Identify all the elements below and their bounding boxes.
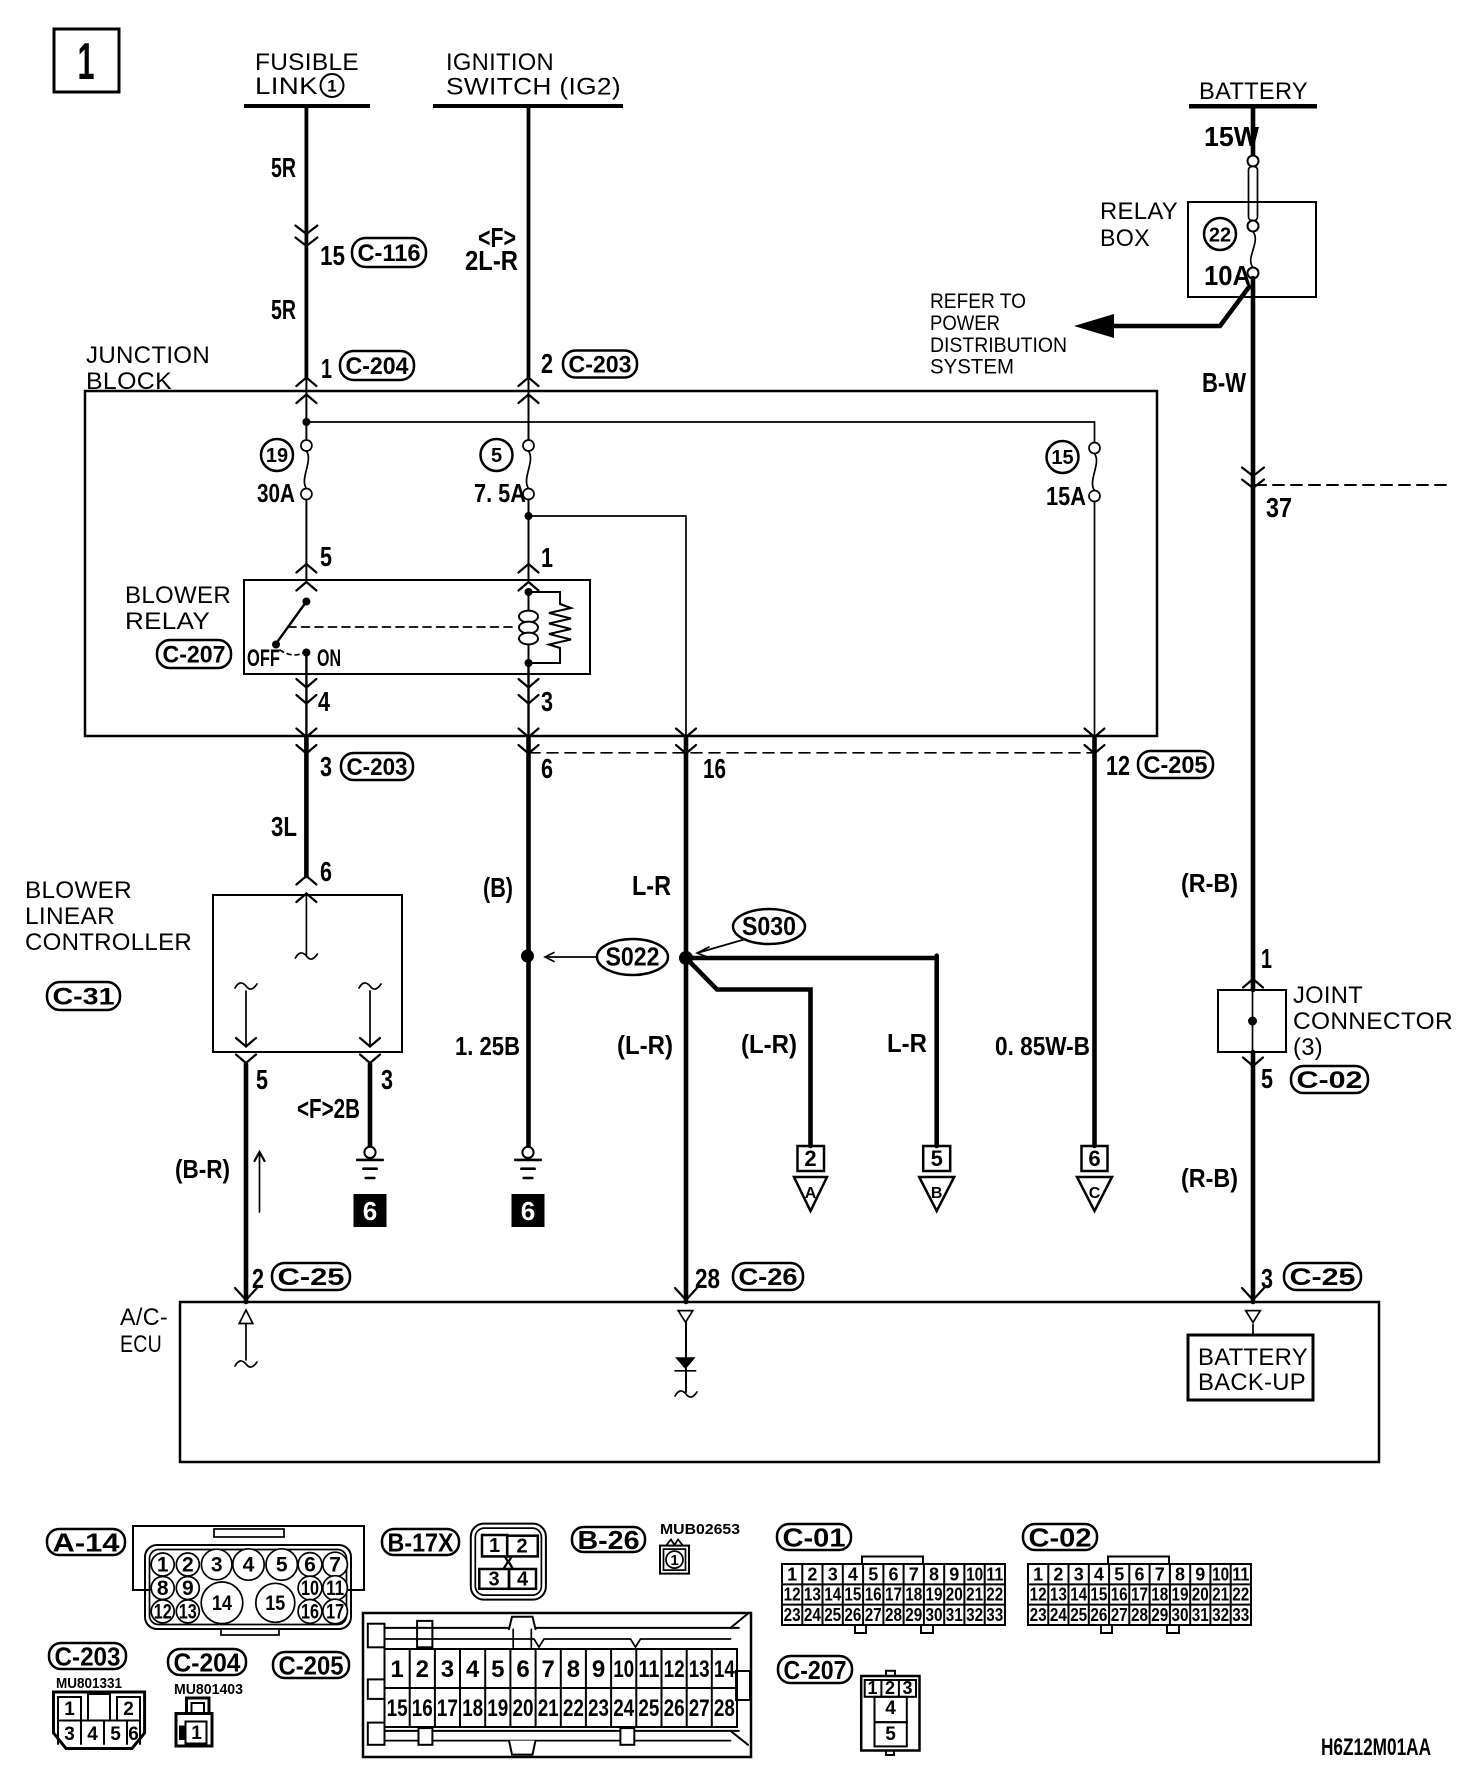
wire2 thin inside junction block bbox=[528, 378, 530, 441]
svg-text:2: 2 bbox=[541, 348, 553, 379]
svg-text:33: 33 bbox=[1232, 1605, 1249, 1625]
connector chevrons 15 C-116 bbox=[295, 226, 317, 235]
svg-text:BLOWER: BLOWER bbox=[125, 582, 231, 609]
svg-text:9: 9 bbox=[592, 1656, 605, 1683]
wire L-R vertical to ECU bbox=[684, 738, 689, 1302]
svg-text:20: 20 bbox=[946, 1585, 963, 1605]
svg-text:14: 14 bbox=[824, 1585, 841, 1605]
blower linear controller rectangle bbox=[213, 895, 402, 1052]
svg-text:B-W: B-W bbox=[1202, 367, 1246, 398]
wire junction block rail bbox=[306, 421, 1094, 423]
A/C-ECU rectangle bbox=[180, 1302, 1379, 1462]
chevrons wire4 exiting junction block bbox=[1085, 729, 1105, 738]
svg-text:MU801403: MU801403 bbox=[174, 1681, 243, 1698]
wire relay switch to pin4 bbox=[305, 653, 307, 737]
svg-text:7: 7 bbox=[1155, 1564, 1165, 1584]
svg-text:1: 1 bbox=[191, 1723, 202, 1744]
svg-text:JUNCTION: JUNCTION bbox=[86, 342, 210, 369]
svg-text:12: 12 bbox=[1030, 1585, 1047, 1605]
svg-text:1: 1 bbox=[390, 1656, 403, 1683]
chevron B-R entering ECU bbox=[235, 1288, 257, 1300]
svg-text:31: 31 bbox=[1192, 1605, 1209, 1625]
wire branch to pin16 vertical bbox=[685, 516, 687, 736]
svg-text:14: 14 bbox=[212, 1592, 232, 1615]
connector C-203 body bbox=[54, 1692, 145, 1749]
connector pill C-31 bbox=[47, 982, 120, 1010]
svg-text:15: 15 bbox=[265, 1592, 285, 1615]
fuse 19 circle bbox=[261, 439, 293, 471]
svg-text:22: 22 bbox=[986, 1585, 1003, 1605]
terminal box 2 branch A bbox=[798, 1146, 825, 1171]
svg-text:C-205: C-205 bbox=[1144, 752, 1208, 779]
svg-text:(L-R): (L-R) bbox=[617, 1030, 673, 1060]
svg-text:16: 16 bbox=[703, 753, 726, 784]
wire 3L vertical bbox=[304, 738, 309, 876]
svg-text:S030: S030 bbox=[742, 911, 796, 941]
svg-text:6: 6 bbox=[304, 1554, 316, 1577]
ground code box 6 at x=370.0 bbox=[354, 1194, 387, 1227]
fuse 10A squiggle bbox=[1251, 232, 1256, 268]
chevrons wire2 entering junction block bbox=[519, 378, 539, 387]
svg-text:25: 25 bbox=[638, 1695, 659, 1722]
junction block rectangle bbox=[85, 391, 1157, 736]
svg-text:6: 6 bbox=[128, 1724, 139, 1745]
svg-text:C-02: C-02 bbox=[1297, 1067, 1363, 1094]
svg-text:6: 6 bbox=[521, 1196, 535, 1226]
svg-text:24: 24 bbox=[804, 1605, 821, 1625]
svg-text:0. 85W-B: 0. 85W-B bbox=[995, 1031, 1090, 1061]
svg-text:C-31: C-31 bbox=[53, 984, 115, 1011]
svg-text:C-205: C-205 bbox=[279, 1650, 344, 1680]
svg-text:2: 2 bbox=[416, 1656, 429, 1683]
svg-text:4: 4 bbox=[318, 686, 330, 717]
svg-text:17: 17 bbox=[885, 1585, 902, 1605]
junction dot ignition branch pin16 bbox=[525, 512, 533, 520]
svg-text:5: 5 bbox=[491, 445, 502, 467]
svg-text:6: 6 bbox=[541, 753, 553, 784]
svg-text:26: 26 bbox=[844, 1605, 861, 1625]
svg-text:DISTRIBUTION: DISTRIBUTION bbox=[930, 334, 1067, 357]
chevrons controller right exit bbox=[360, 1038, 380, 1047]
svg-text:C-02: C-02 bbox=[1029, 1522, 1092, 1552]
svg-text:17: 17 bbox=[1131, 1585, 1148, 1605]
wire1 thin inside junction block bbox=[305, 378, 307, 441]
connector A-14 cavities bbox=[151, 1553, 174, 1576]
svg-text:C-25: C-25 bbox=[1290, 1264, 1356, 1291]
svg-text:22: 22 bbox=[1232, 1585, 1249, 1605]
svg-text:7: 7 bbox=[329, 1554, 341, 1577]
svg-text:5: 5 bbox=[868, 1564, 878, 1584]
connector B-17X body bbox=[471, 1524, 546, 1600]
svg-text:18: 18 bbox=[462, 1695, 483, 1722]
svg-text:C-203: C-203 bbox=[347, 754, 408, 781]
chevrons wire1 exiting junction block bbox=[296, 729, 316, 738]
chevrons wire3 exiting junction block bbox=[676, 729, 696, 738]
page number box 1 bbox=[54, 29, 119, 92]
svg-text:BATTERY: BATTERY bbox=[1198, 1344, 1308, 1371]
svg-text:6: 6 bbox=[1134, 1564, 1144, 1584]
svg-text:3: 3 bbox=[488, 1569, 499, 1591]
svg-text:18: 18 bbox=[905, 1585, 922, 1605]
svg-text:RELAY: RELAY bbox=[125, 608, 210, 635]
wire B-R vertical to ECU bbox=[244, 1064, 249, 1302]
svg-text:2: 2 bbox=[807, 1564, 817, 1584]
svg-text:10: 10 bbox=[1212, 1564, 1229, 1584]
svg-text:2: 2 bbox=[804, 1146, 816, 1171]
svg-text:13: 13 bbox=[689, 1656, 710, 1683]
svg-text:H6Z12M01AA: H6Z12M01AA bbox=[1321, 1734, 1431, 1761]
svg-text:8: 8 bbox=[1175, 1564, 1185, 1584]
svg-text:(B-R): (B-R) bbox=[175, 1154, 230, 1184]
svg-text:3: 3 bbox=[902, 1678, 912, 1698]
svg-text:X: X bbox=[502, 1553, 514, 1573]
svg-text:5R: 5R bbox=[271, 294, 296, 325]
svg-text:C-204: C-204 bbox=[174, 1647, 241, 1677]
joint connector box bbox=[1218, 990, 1286, 1052]
svg-text:30A: 30A bbox=[257, 478, 295, 508]
wire fuse15 to junction block bottom bbox=[1094, 502, 1096, 737]
chevrons entering blower linear controller bbox=[296, 876, 316, 885]
svg-text:SWITCH (IG2): SWITCH (IG2) bbox=[446, 74, 621, 101]
svg-text:26: 26 bbox=[1090, 1605, 1107, 1625]
svg-text:1: 1 bbox=[157, 1554, 169, 1577]
svg-text:MU801331: MU801331 bbox=[56, 1675, 122, 1692]
svg-text:(L-R): (L-R) bbox=[741, 1029, 797, 1059]
connector A-14 outer housing bbox=[133, 1526, 364, 1590]
wire ignition switch vertical 2L-R bbox=[527, 108, 531, 377]
ECU input symbol right open triangle down bbox=[1246, 1311, 1261, 1323]
battery back-up box bbox=[1188, 1335, 1313, 1400]
svg-text:5: 5 bbox=[885, 1724, 896, 1745]
svg-text:19: 19 bbox=[487, 1695, 508, 1722]
wire branch to pin16 horizontal bbox=[529, 515, 687, 517]
relay actuation dashed line bbox=[288, 626, 516, 628]
arrow to power distribution system bbox=[1112, 287, 1249, 326]
svg-text:21: 21 bbox=[1212, 1585, 1229, 1605]
battery terminal bar bbox=[1189, 104, 1317, 109]
svg-text:6: 6 bbox=[516, 1656, 529, 1683]
svg-text:1: 1 bbox=[78, 33, 95, 91]
connector pill C-205 bottom bbox=[273, 1652, 349, 1678]
svg-text:BACK-UP: BACK-UP bbox=[1198, 1369, 1306, 1396]
svg-text:OFF: OFF bbox=[247, 645, 280, 672]
connector pill C-203 top bbox=[563, 351, 637, 378]
wire stub inside controller right bbox=[359, 983, 381, 989]
svg-text:1: 1 bbox=[321, 353, 332, 384]
connector C-205 pin grid bbox=[385, 1649, 738, 1727]
svg-text:BLOWER: BLOWER bbox=[25, 877, 132, 904]
svg-text:15: 15 bbox=[387, 1695, 408, 1722]
svg-text:6: 6 bbox=[320, 856, 332, 887]
svg-text:6: 6 bbox=[363, 1196, 377, 1226]
svg-text:C: C bbox=[1089, 1185, 1101, 1202]
fuse 19 element 30A bbox=[301, 440, 312, 451]
svg-text:L-R: L-R bbox=[632, 870, 671, 901]
svg-text:29: 29 bbox=[1151, 1605, 1168, 1625]
svg-text:23: 23 bbox=[784, 1605, 801, 1625]
svg-text:5: 5 bbox=[320, 541, 332, 572]
svg-text:POWER: POWER bbox=[930, 312, 1000, 335]
dashed branch line at 37 bbox=[1255, 484, 1450, 486]
svg-text:12: 12 bbox=[1106, 750, 1130, 781]
connector C-01 pin grid bbox=[862, 1557, 923, 1565]
connector pill C-116 bbox=[352, 238, 426, 267]
svg-text:20: 20 bbox=[513, 1695, 534, 1722]
relay switch ON dot bbox=[302, 649, 310, 657]
svg-text:26: 26 bbox=[664, 1695, 685, 1722]
svg-text:24: 24 bbox=[613, 1695, 635, 1722]
arrow S030 to splice bbox=[699, 940, 744, 953]
wire F2B to ground bbox=[368, 1064, 373, 1147]
svg-text:9: 9 bbox=[182, 1577, 194, 1600]
svg-text:ECU: ECU bbox=[120, 1331, 162, 1358]
triangle connector A bbox=[794, 1177, 827, 1211]
svg-text:10A: 10A bbox=[1204, 260, 1251, 291]
svg-text:1: 1 bbox=[1033, 1564, 1043, 1584]
svg-text:L-R: L-R bbox=[887, 1028, 927, 1058]
svg-text:15: 15 bbox=[1051, 447, 1073, 469]
svg-text:BATTERY: BATTERY bbox=[1199, 78, 1308, 105]
svg-text:13: 13 bbox=[804, 1585, 821, 1605]
svg-text:23: 23 bbox=[1030, 1605, 1047, 1625]
svg-text:4: 4 bbox=[517, 1569, 529, 1591]
chevron entering joint connector bbox=[1243, 979, 1263, 988]
circled 1 fusible link number bbox=[321, 74, 344, 97]
svg-text:1: 1 bbox=[64, 1699, 75, 1720]
svg-text:<F>2B: <F>2B bbox=[297, 1093, 360, 1124]
up arrow beside B-R wire bbox=[259, 1152, 261, 1212]
svg-text:4: 4 bbox=[848, 1564, 858, 1584]
fusible link terminal bar bbox=[244, 104, 370, 108]
ECU input symbol middle diode bbox=[678, 1311, 693, 1323]
svg-text:16: 16 bbox=[865, 1585, 882, 1605]
svg-text:(3): (3) bbox=[1293, 1034, 1323, 1061]
svg-text:14: 14 bbox=[714, 1656, 736, 1683]
fuse 15 element 15A bbox=[1094, 422, 1096, 443]
svg-text:1: 1 bbox=[541, 542, 553, 573]
svg-text:12: 12 bbox=[664, 1656, 685, 1683]
svg-text:3: 3 bbox=[828, 1564, 838, 1584]
connector B-26 body bbox=[667, 1540, 683, 1546]
connector C-205 28pin housing bbox=[363, 1613, 751, 1757]
splice dot S030 bbox=[679, 951, 693, 965]
arrow S022 to splice bbox=[546, 956, 597, 958]
svg-text:(R-B): (R-B) bbox=[1181, 1163, 1238, 1193]
svg-text:17: 17 bbox=[437, 1695, 458, 1722]
ignition switch terminal bar bbox=[433, 104, 623, 108]
svg-text:A: A bbox=[805, 1185, 817, 1202]
svg-text:LINEAR: LINEAR bbox=[25, 903, 115, 930]
wire fusible link vertical 5R bbox=[304, 108, 308, 377]
svg-text:LINK: LINK bbox=[255, 73, 318, 100]
svg-text:21: 21 bbox=[966, 1585, 983, 1605]
svg-text:1: 1 bbox=[1261, 943, 1272, 974]
triangle connector B bbox=[919, 1177, 954, 1211]
svg-text:11: 11 bbox=[326, 1577, 344, 1600]
connector pill C-207 bottom bbox=[778, 1656, 852, 1683]
svg-text:13: 13 bbox=[179, 1600, 197, 1623]
svg-text:3: 3 bbox=[541, 686, 553, 717]
relay switch travel dashed arc bbox=[280, 650, 303, 655]
connector pill B-26 bbox=[572, 1527, 645, 1552]
svg-text:6: 6 bbox=[1088, 1146, 1100, 1171]
svg-text:FUSIBLE: FUSIBLE bbox=[255, 49, 359, 76]
wire 0.85W-B vertical bbox=[1092, 738, 1097, 1146]
svg-text:27: 27 bbox=[865, 1605, 882, 1625]
svg-text:ON: ON bbox=[317, 645, 341, 672]
svg-text:RELAY: RELAY bbox=[1100, 198, 1178, 225]
svg-text:8: 8 bbox=[567, 1656, 580, 1683]
svg-text:37: 37 bbox=[1266, 492, 1292, 523]
wire stub inside controller top bbox=[305, 894, 307, 955]
svg-text:5: 5 bbox=[931, 1146, 943, 1171]
svg-text:B-26: B-26 bbox=[578, 1525, 640, 1555]
svg-text:30: 30 bbox=[926, 1605, 943, 1625]
svg-text:5R: 5R bbox=[271, 152, 296, 183]
svg-text:6: 6 bbox=[888, 1564, 898, 1584]
wire fuse5 to blower relay pin1 bbox=[528, 500, 530, 581]
svg-text:19: 19 bbox=[926, 1585, 943, 1605]
svg-text:11: 11 bbox=[638, 1656, 659, 1683]
ground symbol at x=370.0 bbox=[364, 1147, 375, 1158]
svg-text:5: 5 bbox=[256, 1064, 268, 1095]
svg-text:3: 3 bbox=[1074, 1564, 1084, 1584]
connector pill C-204 bbox=[168, 1649, 246, 1675]
wire branch A diagonal bbox=[686, 958, 811, 1146]
svg-text:B-17X: B-17X bbox=[388, 1527, 455, 1557]
wire (B) 1.25B vertical bbox=[526, 738, 531, 1147]
svg-text:31: 31 bbox=[946, 1605, 963, 1625]
svg-text:3: 3 bbox=[381, 1064, 393, 1095]
connector pill C-02 bottom bbox=[1023, 1524, 1097, 1550]
ground symbol at x=528.0 bbox=[522, 1147, 533, 1158]
svg-text:25: 25 bbox=[824, 1605, 841, 1625]
connector C-02 pin grid bbox=[1108, 1557, 1169, 1565]
svg-text:7. 5A: 7. 5A bbox=[474, 478, 526, 508]
svg-text:9: 9 bbox=[949, 1564, 959, 1584]
svg-text:C-26: C-26 bbox=[739, 1264, 798, 1291]
connector pill C-203 bottom bbox=[49, 1643, 126, 1669]
circled 22 fuse number bbox=[1204, 218, 1236, 250]
svg-text:A/C-: A/C- bbox=[120, 1304, 168, 1331]
wire branch B horizontal bbox=[686, 956, 937, 961]
svg-text:16: 16 bbox=[1111, 1585, 1128, 1605]
svg-text:SYSTEM: SYSTEM bbox=[930, 356, 1014, 379]
relay resistor bbox=[529, 592, 572, 663]
connector C-204 body bbox=[187, 1698, 210, 1722]
svg-text:28: 28 bbox=[695, 1263, 720, 1294]
wire branch B vertical bbox=[934, 956, 939, 1146]
svg-text:23: 23 bbox=[588, 1695, 609, 1722]
svg-text:4: 4 bbox=[885, 1698, 896, 1719]
wire battery vertical 15W bbox=[1251, 108, 1256, 156]
svg-text:32: 32 bbox=[1212, 1605, 1229, 1625]
chevrons wire1 entering blower relay bbox=[296, 564, 316, 573]
terminal box 6 wire C bbox=[1082, 1146, 1108, 1171]
ground code box 6 at x=528.0 bbox=[512, 1194, 545, 1227]
svg-text:3: 3 bbox=[320, 751, 332, 782]
svg-text:16: 16 bbox=[301, 1600, 319, 1623]
connector pill C-207 relay bbox=[157, 640, 231, 668]
wire R-B joint connector to ECU bbox=[1251, 1052, 1256, 1302]
svg-text:C-203: C-203 bbox=[55, 1641, 121, 1671]
chevrons controller left exit bbox=[236, 1038, 256, 1047]
svg-text:(B): (B) bbox=[483, 872, 513, 903]
svg-text:12: 12 bbox=[154, 1600, 172, 1623]
svg-text:7: 7 bbox=[909, 1564, 919, 1584]
connector C-207 body bbox=[886, 1671, 895, 1676]
svg-text:10: 10 bbox=[301, 1577, 319, 1600]
chevron L-R entering ECU bbox=[675, 1288, 697, 1300]
svg-text:21: 21 bbox=[538, 1695, 559, 1722]
wire battery below relay box B-W bbox=[1251, 278, 1256, 990]
svg-text:B: B bbox=[931, 1185, 943, 1202]
svg-text:2: 2 bbox=[1053, 1564, 1063, 1584]
svg-text:5: 5 bbox=[110, 1724, 121, 1745]
chevrons relay pin3 exit bbox=[519, 679, 539, 688]
wire to battery backup box bbox=[1252, 1325, 1254, 1336]
svg-text:2L-R: 2L-R bbox=[465, 245, 518, 276]
svg-text:MUB02653: MUB02653 bbox=[660, 1521, 740, 1538]
svg-text:20: 20 bbox=[1192, 1585, 1209, 1605]
splice oval S022 bbox=[597, 939, 668, 975]
svg-text:C-01: C-01 bbox=[783, 1522, 846, 1552]
blower relay rectangle bbox=[244, 580, 590, 674]
svg-text:1: 1 bbox=[787, 1564, 797, 1584]
relay box rectangle bbox=[1188, 202, 1316, 297]
svg-text:REFER TO: REFER TO bbox=[930, 290, 1026, 313]
svg-text:33: 33 bbox=[986, 1605, 1003, 1625]
svg-text:1: 1 bbox=[489, 1535, 500, 1557]
svg-text:12: 12 bbox=[784, 1585, 801, 1605]
relay switch common dot bbox=[302, 598, 310, 606]
svg-text:5: 5 bbox=[491, 1656, 504, 1683]
svg-text:30: 30 bbox=[1172, 1605, 1189, 1625]
connector pill C-01 bbox=[777, 1524, 851, 1550]
svg-text:2: 2 bbox=[182, 1554, 194, 1577]
svg-text:CONTROLLER: CONTROLLER bbox=[25, 929, 192, 956]
svg-text:4: 4 bbox=[87, 1724, 98, 1745]
svg-text:13: 13 bbox=[1050, 1585, 1067, 1605]
svg-text:3L: 3L bbox=[271, 811, 297, 842]
svg-text:4: 4 bbox=[466, 1656, 480, 1683]
svg-text:1: 1 bbox=[670, 1552, 678, 1569]
splice oval S030 bbox=[733, 909, 805, 944]
ECU input symbol left open triangle up bbox=[239, 1310, 253, 1324]
svg-text:4: 4 bbox=[1094, 1564, 1104, 1584]
svg-text:C-207: C-207 bbox=[163, 642, 226, 669]
svg-text:15A: 15A bbox=[1046, 481, 1086, 511]
svg-text:1. 25B: 1. 25B bbox=[455, 1031, 520, 1061]
svg-text:BOX: BOX bbox=[1100, 225, 1150, 252]
connector B-17X cavities bbox=[482, 1535, 507, 1556]
svg-text:10: 10 bbox=[966, 1564, 983, 1584]
relay switch arm bbox=[277, 602, 307, 644]
fusible link capsule symbol bbox=[1248, 156, 1259, 167]
svg-text:5: 5 bbox=[1261, 1063, 1273, 1094]
chevrons wire2 entering blower relay bbox=[519, 564, 539, 573]
svg-text:15: 15 bbox=[1090, 1585, 1107, 1605]
connector pill A-14 bbox=[47, 1529, 125, 1555]
svg-text:24: 24 bbox=[1050, 1605, 1067, 1625]
svg-text:8: 8 bbox=[929, 1564, 939, 1584]
svg-text:CONNECTOR: CONNECTOR bbox=[1293, 1008, 1453, 1035]
svg-text:2: 2 bbox=[885, 1678, 895, 1698]
svg-text:5: 5 bbox=[276, 1554, 288, 1577]
svg-text:15: 15 bbox=[844, 1585, 861, 1605]
svg-text:29: 29 bbox=[905, 1605, 922, 1625]
svg-text:(R-B): (R-B) bbox=[1181, 868, 1238, 898]
